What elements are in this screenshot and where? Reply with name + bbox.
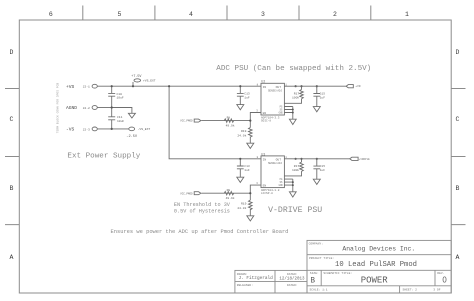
svg-text:PROJECT TITLE:: PROJECT TITLE:	[309, 257, 334, 260]
svg-text:SOIC-8: SOIC-8	[261, 120, 271, 123]
svg-text:DATED:: DATED:	[287, 273, 298, 276]
svg-text:3: 3	[261, 11, 265, 18]
svg-text:+7.5V: +7.5V	[131, 75, 142, 79]
svg-text:Ext Power Supply: Ext Power Supply	[67, 153, 140, 161]
svg-text:J2-1: J2-1	[83, 86, 90, 89]
svg-text:+VD: +VD	[355, 85, 361, 88]
svg-text:C10: C10	[117, 93, 123, 96]
svg-text:+VDRIVE: +VDRIVE	[359, 158, 370, 161]
svg-text:3: 3	[256, 109, 258, 112]
svg-text:10uF: 10uF	[117, 120, 124, 123]
svg-text:D: D	[10, 49, 14, 56]
svg-text:5: 5	[118, 11, 122, 18]
svg-text:R8: R8	[227, 116, 231, 119]
svg-text:SCALE: 1:1: SCALE: 1:1	[310, 289, 328, 292]
svg-text:1: 1	[405, 11, 409, 18]
svg-text:LFCSP-8: LFCSP-8	[261, 192, 273, 195]
svg-text:-2.5V: -2.5V	[126, 135, 138, 139]
svg-text:24.0k: 24.0k	[237, 133, 246, 137]
svg-text:U3: U3	[261, 153, 265, 157]
svg-text:10uF: 10uF	[117, 97, 124, 100]
svg-text:J2-2: J2-2	[83, 107, 90, 110]
svg-text:-VS: -VS	[66, 127, 75, 133]
svg-text:B: B	[456, 185, 460, 192]
svg-text:1uF: 1uF	[320, 96, 326, 99]
svg-text:C11: C11	[117, 116, 123, 119]
svg-text:GND: GND	[279, 111, 284, 114]
svg-text:J. Fitzgerald: J. Fitzgerald	[239, 276, 274, 281]
svg-text:C: C	[456, 116, 460, 123]
svg-text:Ensures we power the ADC up af: Ensures we power the ADC up after Pmod C…	[111, 229, 289, 235]
svg-text:1uF: 1uF	[244, 96, 250, 99]
svg-text:100k: 100k	[292, 95, 299, 99]
svg-text:B: B	[310, 277, 315, 285]
svg-text:A: A	[10, 254, 14, 261]
svg-text:VCC_PMOD: VCC_PMOD	[180, 120, 193, 123]
svg-text:J2-3: J2-3	[83, 128, 90, 131]
svg-text:A: A	[456, 254, 460, 261]
svg-text:12/18/2013: 12/18/2013	[279, 277, 305, 282]
svg-text:C13: C13	[244, 93, 250, 96]
svg-text:SIZE:: SIZE:	[310, 272, 319, 275]
svg-text:V-DRIVE PSU: V-DRIVE PSU	[268, 206, 322, 215]
svg-text:U2: U2	[261, 81, 265, 85]
svg-text:COMPANY:: COMPANY:	[309, 243, 324, 246]
svg-text:R17: R17	[294, 93, 300, 96]
svg-text:-VS_EXT: -VS_EXT	[138, 128, 151, 131]
svg-text:D: D	[456, 49, 460, 56]
svg-text:+VS_EXT: +VS_EXT	[143, 80, 156, 83]
svg-text:POWER: POWER	[361, 276, 389, 286]
svg-text:C: C	[10, 116, 14, 123]
svg-text:SCHEMATIC TITLE:: SCHEMATIC TITLE:	[323, 272, 352, 275]
svg-text:EN: EN	[263, 112, 267, 115]
svg-text:B: B	[10, 185, 14, 192]
svg-text:R19: R19	[241, 130, 247, 133]
svg-text:EN Threshold to 3V: EN Threshold to 3V	[174, 202, 231, 208]
svg-text:0: 0	[442, 275, 447, 284]
svg-text:0.5V of Hysteresis: 0.5V of Hysteresis	[174, 209, 230, 215]
svg-text:TERM BLOCK CONN FOR 3POS PCB: TERM BLOCK CONN FOR 3POS PCB	[57, 83, 60, 134]
svg-text:SENSE/ADJ: SENSE/ADJ	[268, 88, 282, 92]
svg-text:3 OF: 3 OF	[433, 289, 440, 292]
svg-text:DATED:: DATED:	[287, 284, 298, 287]
svg-text:4: 4	[189, 11, 193, 18]
svg-text:6: 6	[49, 11, 53, 18]
svg-text:10 Lead PulSAR Pmod: 10 Lead PulSAR Pmod	[335, 261, 417, 269]
svg-text:49.9k: 49.9k	[226, 124, 235, 128]
svg-text:AGND: AGND	[66, 105, 77, 111]
svg-text:SHEET: 2: SHEET: 2	[403, 289, 418, 292]
svg-text:Analog Devices Inc.: Analog Devices Inc.	[342, 246, 415, 253]
svg-text:RELEASED:: RELEASED:	[237, 284, 253, 287]
svg-text:C15: C15	[320, 93, 326, 96]
svg-text:ADC PSU (Can be swapped with 2: ADC PSU (Can be swapped with 2.5V)	[216, 65, 371, 73]
svg-text:IN: IN	[263, 86, 267, 89]
svg-text:2: 2	[333, 11, 337, 18]
svg-text:+VS: +VS	[66, 84, 75, 90]
